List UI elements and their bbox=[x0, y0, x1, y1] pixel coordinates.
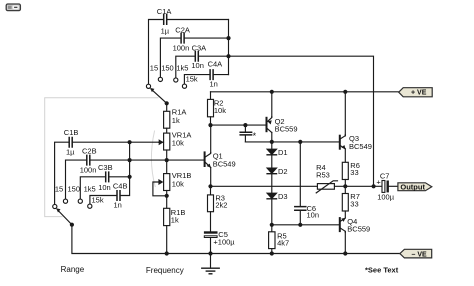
svg-text:C4B: C4B bbox=[113, 182, 128, 191]
thermistor R4 (R53) bbox=[316, 163, 337, 193]
junction bbox=[226, 54, 230, 58]
junction: Q1 emitter node bbox=[208, 184, 212, 188]
resistor R1B bbox=[164, 208, 186, 226]
svg-text:Frequency: Frequency bbox=[146, 266, 184, 275]
wire bbox=[109, 176, 129, 178]
wire bbox=[210, 212, 212, 232]
capacitor C* (see text) bbox=[240, 125, 256, 142]
switch S1B contact 2 bbox=[63, 199, 67, 203]
switch S1B contact 4 bbox=[88, 204, 92, 208]
transistor Q3 bbox=[340, 134, 372, 151]
wire bbox=[185, 37, 229, 39]
wire bbox=[271, 92, 273, 117]
svg-text:BC549: BC549 bbox=[349, 142, 372, 151]
svg-text:C4A: C4A bbox=[208, 60, 223, 69]
capacitor C5 bbox=[204, 230, 235, 246]
svg-text:C2A: C2A bbox=[175, 25, 190, 34]
resistor R6 bbox=[342, 161, 360, 180]
junction bbox=[243, 123, 247, 127]
wire Q1 emitter to thermistor bbox=[211, 185, 318, 187]
junction bbox=[208, 251, 212, 255]
diode D1 bbox=[267, 148, 287, 157]
switch S1A contact 1 bbox=[146, 84, 150, 88]
svg-text:C3B: C3B bbox=[98, 163, 113, 172]
resistor R2 bbox=[208, 98, 227, 116]
wire bbox=[90, 196, 117, 205]
wire bbox=[210, 117, 212, 125]
svg-text:15k: 15k bbox=[92, 196, 104, 205]
svg-text:+100µ: +100µ bbox=[213, 238, 235, 247]
svg-text:33: 33 bbox=[350, 168, 358, 177]
capacitor C6 bbox=[295, 204, 319, 220]
switch S1A wiper bbox=[150, 88, 167, 103]
junction bbox=[343, 90, 347, 94]
junction bbox=[298, 140, 302, 144]
svg-text:1k5: 1k5 bbox=[84, 184, 96, 193]
switch gang link bbox=[45, 98, 158, 217]
wire bbox=[344, 149, 346, 162]
svg-text:1k5: 1k5 bbox=[176, 64, 188, 73]
wire bbox=[210, 168, 212, 187]
svg-text:BC559: BC559 bbox=[275, 124, 298, 133]
resistor R5 bbox=[269, 231, 290, 248]
svg-text:+ VE: + VE bbox=[411, 90, 427, 97]
wire bbox=[166, 191, 168, 209]
wire bbox=[66, 160, 87, 199]
wire bbox=[271, 132, 273, 149]
capacitor C1A bbox=[157, 7, 172, 35]
wire bbox=[199, 55, 229, 57]
svg-text:100µ: 100µ bbox=[377, 192, 395, 201]
svg-text:150: 150 bbox=[68, 184, 81, 193]
svg-text:BC549: BC549 bbox=[213, 160, 236, 169]
svg-text:1n: 1n bbox=[114, 201, 122, 210]
svg-text:*See Text: *See Text bbox=[365, 265, 399, 274]
wire bbox=[344, 180, 346, 194]
wire bbox=[121, 142, 130, 195]
junction bbox=[298, 223, 302, 227]
wire to VR1A wiper bbox=[73, 141, 159, 143]
junction bbox=[128, 158, 132, 162]
resistor R7 bbox=[342, 192, 360, 211]
capacitor C4A bbox=[208, 60, 223, 89]
wire Q1 collector to Q2 base bbox=[211, 124, 266, 126]
svg-text:150: 150 bbox=[161, 64, 174, 73]
svg-text:33: 33 bbox=[350, 200, 358, 209]
svg-text:1k: 1k bbox=[171, 215, 179, 224]
wire to Q1 base bbox=[90, 159, 204, 161]
wire bbox=[210, 186, 212, 195]
svg-text:1µ: 1µ bbox=[161, 26, 170, 35]
wire Q4 base bbox=[272, 224, 339, 226]
terminal Output bbox=[398, 182, 432, 191]
svg-text:C3A: C3A bbox=[192, 43, 207, 52]
svg-text:R53: R53 bbox=[316, 170, 330, 179]
wire +VE rail bbox=[211, 91, 399, 93]
wire bbox=[80, 177, 105, 199]
wire bbox=[299, 142, 301, 206]
wire bbox=[184, 75, 209, 84]
junction bbox=[128, 140, 132, 144]
wire bbox=[176, 56, 195, 78]
capacitor C2A bbox=[173, 25, 190, 52]
wire VR1B wiper loop bbox=[153, 179, 167, 196]
capacitor C2B bbox=[80, 146, 97, 174]
resistor R3 bbox=[208, 193, 228, 211]
svg-text:D3: D3 bbox=[278, 192, 288, 201]
wire bbox=[271, 174, 273, 193]
ground bbox=[202, 254, 219, 274]
switch S1B wiper bbox=[56, 208, 72, 224]
switch S1A contact 4 bbox=[182, 84, 186, 88]
wire bbox=[210, 238, 212, 254]
svg-text:10n: 10n bbox=[307, 211, 320, 220]
wire bbox=[166, 128, 168, 133]
switch S1A contact 3 bbox=[174, 78, 178, 82]
svg-text:10n: 10n bbox=[98, 183, 111, 192]
wire bbox=[210, 92, 212, 100]
wire feedback to output bbox=[229, 56, 374, 186]
wire bbox=[166, 150, 168, 174]
potentiometer VR1B bbox=[164, 171, 192, 190]
junction bbox=[165, 251, 169, 255]
junction bbox=[270, 223, 274, 227]
svg-text:15: 15 bbox=[150, 64, 158, 73]
terminal -VE bbox=[400, 249, 432, 258]
logo badge bbox=[6, 4, 20, 11]
wire to Q3 base bbox=[245, 141, 339, 143]
wire bbox=[167, 19, 228, 21]
wire bbox=[271, 249, 273, 254]
svg-text:C1B: C1B bbox=[64, 128, 79, 137]
svg-text:15: 15 bbox=[55, 184, 63, 193]
junction: Q1 collector node bbox=[208, 123, 212, 127]
wire bbox=[166, 105, 168, 111]
svg-text:4k7: 4k7 bbox=[277, 239, 289, 248]
wire bbox=[344, 231, 346, 253]
svg-text:Range: Range bbox=[61, 265, 85, 274]
junction bbox=[165, 158, 169, 162]
svg-text:*: * bbox=[253, 131, 257, 141]
svg-text:D1: D1 bbox=[278, 148, 288, 157]
wire bbox=[335, 185, 382, 187]
node: S1B pole bbox=[70, 223, 74, 227]
capacitor C4B bbox=[113, 182, 128, 210]
svg-text:+: + bbox=[376, 178, 381, 187]
svg-text:1µ: 1µ bbox=[66, 147, 75, 156]
junction bbox=[128, 175, 132, 179]
capacitor C3B bbox=[98, 163, 113, 192]
svg-text:15k: 15k bbox=[186, 75, 198, 84]
svg-text:1n: 1n bbox=[210, 79, 218, 88]
wire bbox=[271, 156, 273, 169]
capacitor C1B bbox=[64, 128, 79, 156]
capacitor C3A bbox=[191, 43, 206, 70]
svg-text:10k: 10k bbox=[214, 106, 226, 115]
junction bbox=[165, 194, 169, 198]
junction bbox=[270, 140, 274, 144]
svg-text:10k: 10k bbox=[172, 179, 184, 188]
wire bbox=[299, 211, 301, 225]
svg-text:BC559: BC559 bbox=[347, 224, 370, 233]
wire bbox=[149, 20, 164, 85]
svg-text:C1A: C1A bbox=[157, 7, 172, 16]
junction bbox=[270, 251, 274, 255]
terminal +VE bbox=[399, 88, 433, 97]
wire bbox=[344, 92, 346, 136]
svg-text:– VE: – VE bbox=[412, 251, 428, 258]
switch S1A position labels bbox=[150, 64, 198, 84]
junction bbox=[270, 90, 274, 94]
switch S1B position labels bbox=[55, 184, 104, 204]
svg-text:C2B: C2B bbox=[82, 146, 97, 155]
switch S1B contact 1 bbox=[53, 204, 57, 208]
svg-text:100n: 100n bbox=[80, 165, 97, 174]
diode D2 bbox=[267, 167, 287, 176]
svg-text:10k: 10k bbox=[172, 139, 184, 148]
pot gang link bbox=[151, 131, 155, 187]
transistor Q4 bbox=[340, 217, 370, 233]
junction bbox=[343, 251, 347, 255]
svg-text:10n: 10n bbox=[191, 61, 204, 70]
potentiometer VR1A bbox=[159, 130, 192, 150]
transistor Q1 bbox=[205, 152, 236, 169]
svg-text:100n: 100n bbox=[173, 43, 190, 52]
wire -VE rail bbox=[72, 225, 400, 254]
switch S1B contact 3 bbox=[78, 199, 82, 203]
resistor R1A bbox=[164, 108, 187, 129]
svg-text:Output: Output bbox=[400, 182, 425, 191]
svg-text:1k: 1k bbox=[172, 116, 180, 125]
wire bbox=[228, 20, 230, 75]
svg-text:D2: D2 bbox=[278, 167, 288, 176]
wire bbox=[166, 226, 168, 254]
junction bbox=[372, 184, 376, 188]
junction: output node bbox=[343, 184, 347, 188]
svg-text:C7: C7 bbox=[380, 171, 390, 180]
wire bbox=[344, 211, 346, 218]
junction bbox=[226, 36, 230, 40]
svg-text:2k2: 2k2 bbox=[215, 201, 227, 210]
transistor Q2 bbox=[267, 117, 298, 134]
switch S1A contact 2 bbox=[158, 77, 162, 81]
wire bbox=[55, 142, 69, 204]
capacitor C7 bbox=[376, 171, 394, 201]
wire bbox=[389, 185, 398, 187]
diode D3 bbox=[267, 192, 287, 201]
wire bbox=[214, 74, 229, 76]
wire bbox=[271, 200, 273, 232]
node: S1A pole bbox=[165, 101, 169, 105]
wire bbox=[160, 38, 180, 77]
wire bbox=[210, 125, 212, 153]
